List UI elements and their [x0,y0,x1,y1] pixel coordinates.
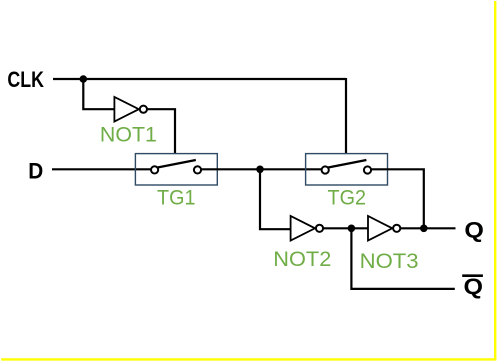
svg-text:CLK: CLK [7,67,44,92]
switch TG2 right contact [364,166,371,173]
node NOT2 output bubble [316,225,323,232]
label Qbar overline [462,274,483,277]
svg-text:Q: Q [464,274,484,299]
wire Qbar junction down and right [351,228,454,289]
border yellow bottom edge [1,358,496,360]
op-amp NOT3 triangle [368,216,392,241]
svg-text:NOT3: NOT3 [360,250,419,273]
svg-text:NOT1: NOT1 [100,123,157,146]
wire NOT3 output to Q [400,227,455,229]
switch TG1 lever [158,160,196,168]
wire D input [52,168,151,170]
op-amp NOT2 triangle [291,216,315,241]
svg-text:D: D [28,158,43,183]
node Qbar junction [348,225,356,233]
svg-text:TG1: TG1 [157,186,196,209]
node D latch junction [256,166,264,174]
switch TG1 right contact [194,166,201,173]
node CLK junction [80,75,88,83]
switch TG2 left contact [322,166,329,173]
svg-text:TG2: TG2 [328,186,367,209]
op-amp NOT1 triangle [114,97,138,122]
transmission gate TG1 box [135,154,217,185]
transmission gate TG2 box [306,154,388,185]
svg-text:NOT2: NOT2 [273,248,331,271]
switch TG2 lever [328,160,366,168]
wire CLK junction down to NOT1 input [83,79,114,109]
wire NOT2 output to NOT3 input [323,227,368,229]
wire junction down to NOT2 input [260,169,291,229]
border yellow right edge [494,1,496,360]
wire CLK down to TG2 top [345,78,347,153]
wire NOT1 output to TG1 top [147,109,175,153]
svg-text:Q: Q [464,218,484,243]
node Q junction [420,225,428,233]
node NOT3 output bubble [393,225,400,232]
switch TG1 left contact [151,166,158,173]
wire TG2 output feedback down [371,169,424,229]
node NOT1 output bubble [140,106,147,113]
wire CLK horizontal [53,78,346,80]
wire TG1 output to TG2 input [201,168,321,170]
